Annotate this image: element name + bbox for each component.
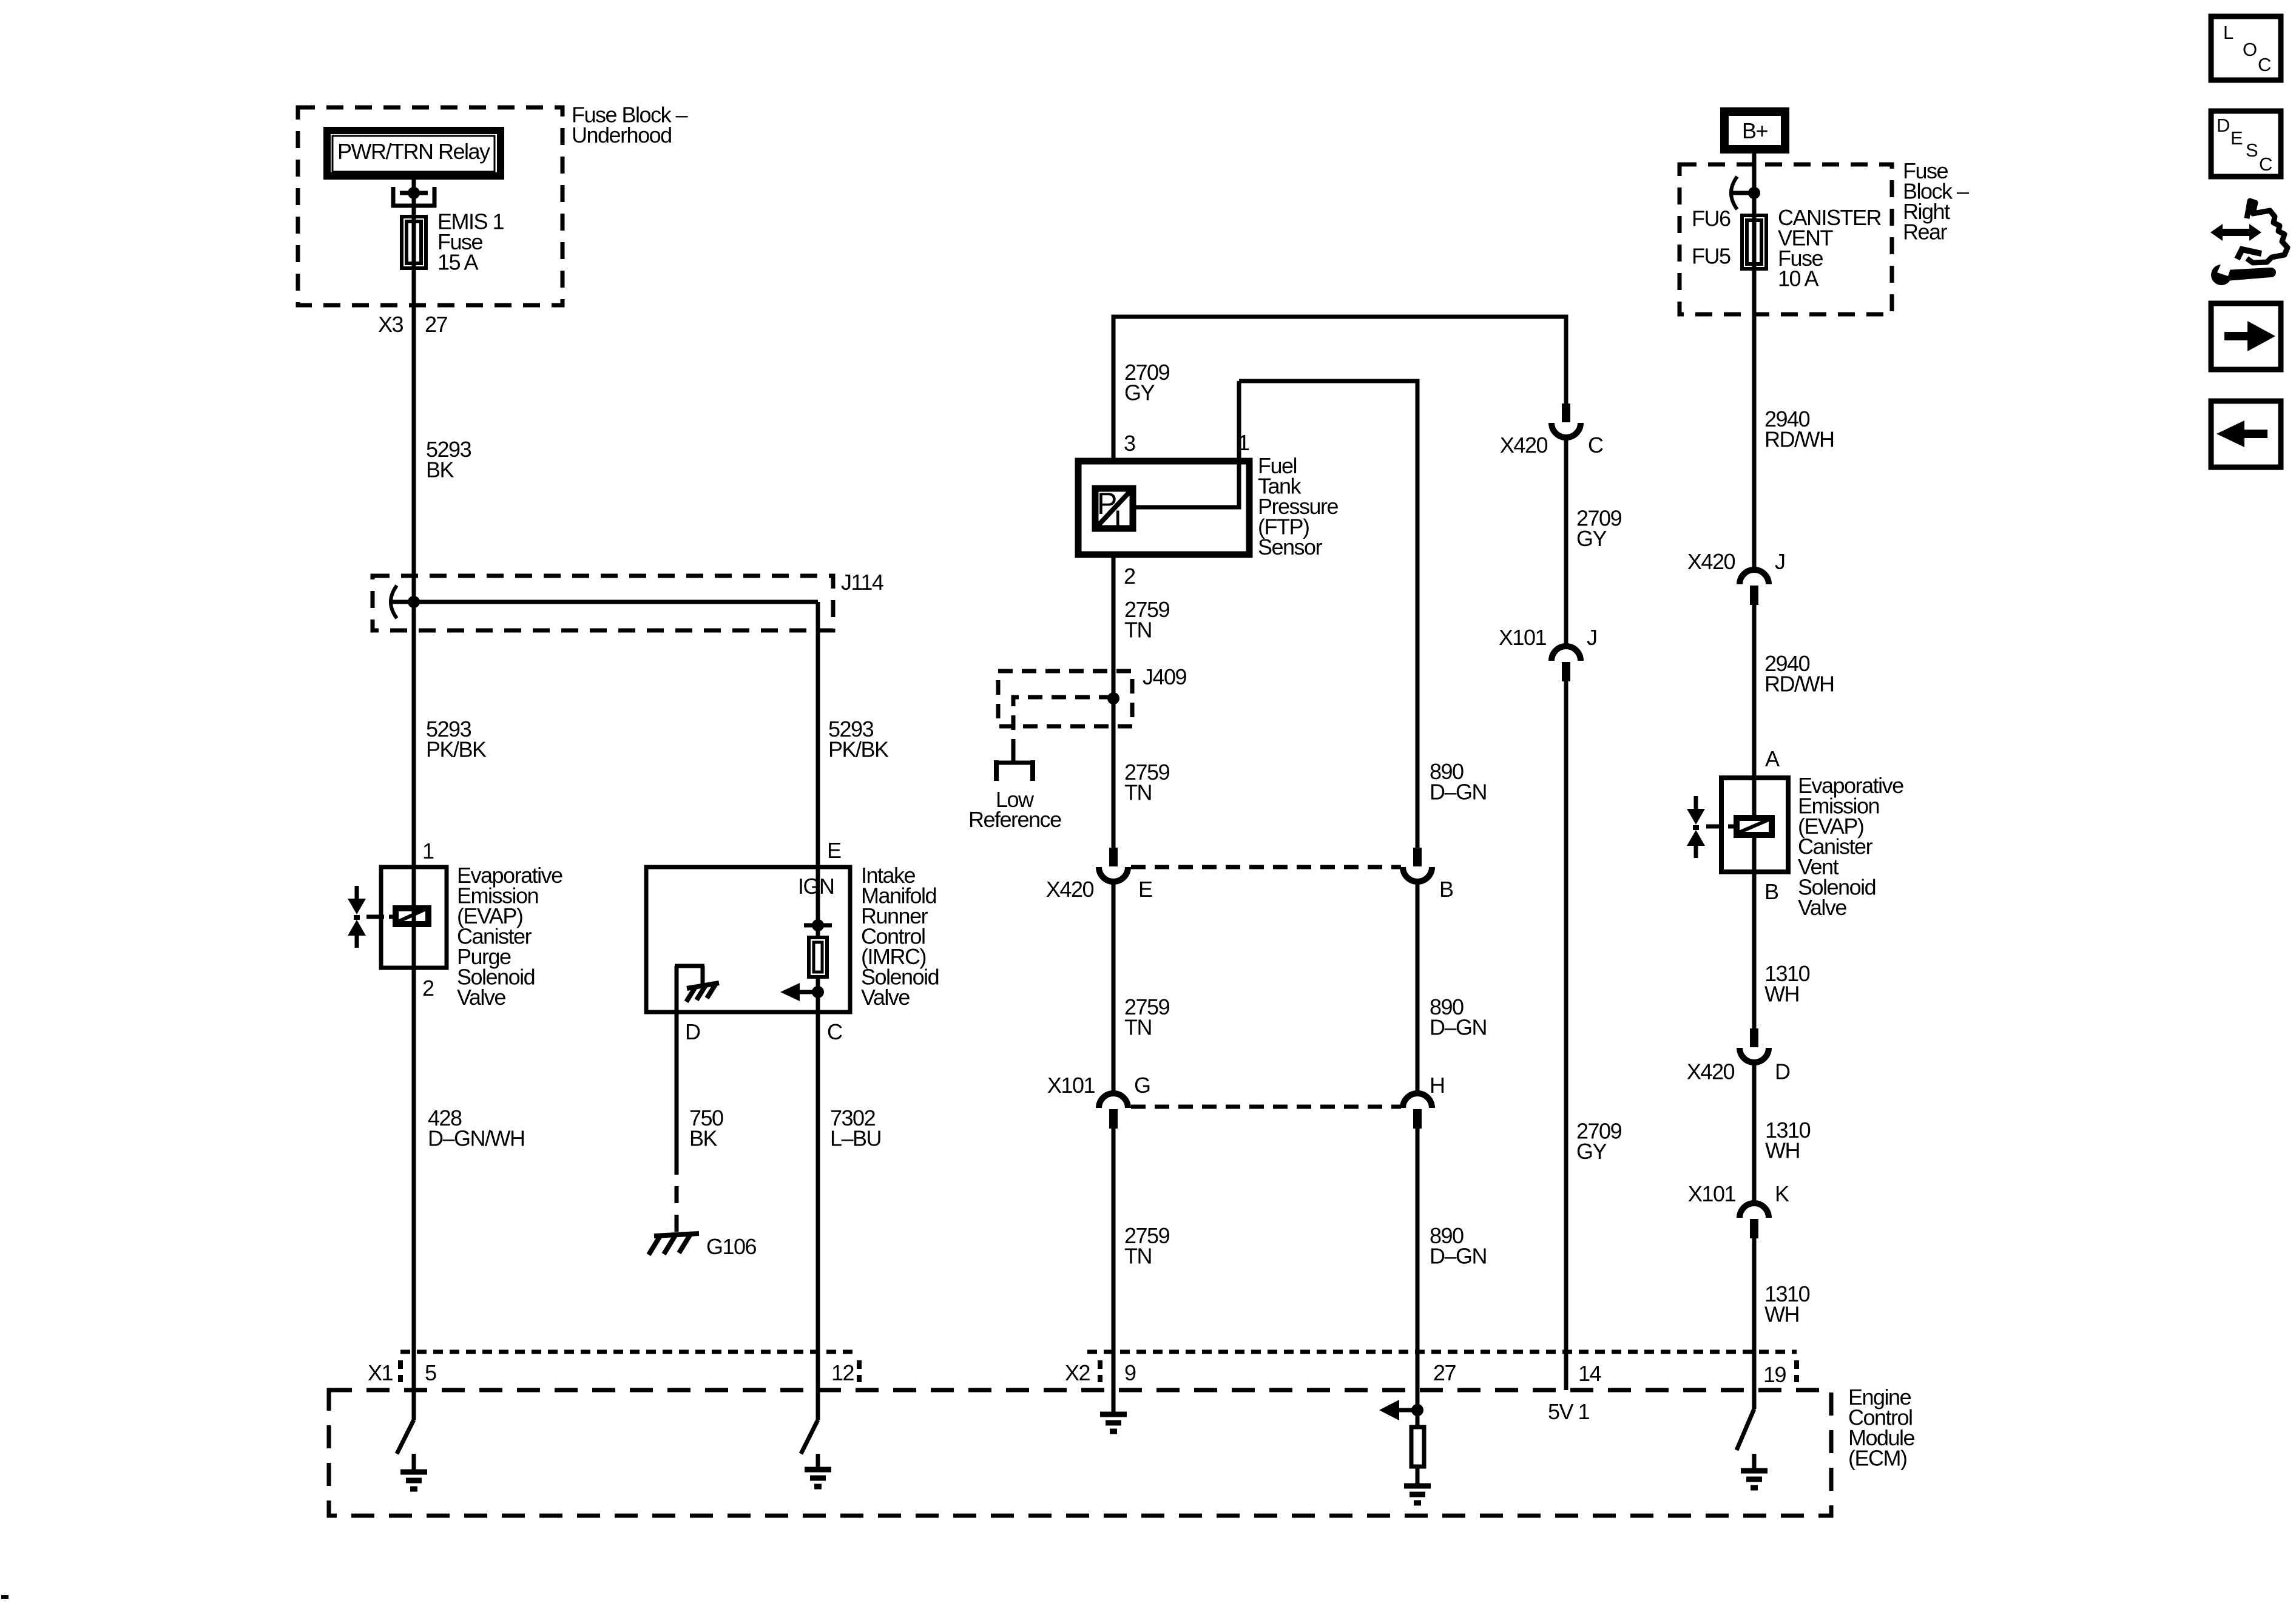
wire 2709 GY J to ECM pin 14 (1564, 681, 1568, 1390)
wire 1310 WH vent solenoid to X420 D (1752, 874, 1757, 1028)
IMRC arrow to valve (780, 983, 818, 1001)
svg-text:D–GN: D–GN (1430, 780, 1487, 805)
svg-text:14: 14 (1578, 1361, 1601, 1386)
label wire 5293 PK/BK right (828, 717, 889, 762)
svg-text:(ECM): (ECM) (1848, 1446, 1906, 1471)
fuse F EMIS1 15A symbol (402, 217, 426, 268)
connector X420 pin E symbol (1099, 848, 1128, 882)
svg-text:B: B (1764, 879, 1778, 904)
svg-text:X3: X3 (378, 312, 403, 337)
wire 428 D-GN/WH purge to ECM pin 5 (412, 968, 416, 1420)
EVAP vent valve symbol (1687, 796, 1705, 858)
svg-text:D–GN: D–GN (1430, 1244, 1487, 1269)
wire 2940 RD/WH J to vent solenoid (1752, 605, 1757, 777)
svg-text:J409: J409 (1143, 664, 1187, 689)
wire 7302 L-BU IMRC pin C to ECM pin 12 (816, 1012, 820, 1420)
svg-text:D: D (1775, 1059, 1790, 1084)
label wire 5293 BK (426, 437, 471, 482)
label X420 E (1046, 877, 1152, 902)
svg-text:C: C (2259, 154, 2272, 175)
wire 2759 TN G to ECM pin 9 (1112, 1129, 1116, 1413)
label X420 C (1500, 433, 1603, 457)
svg-text:X1: X1 (368, 1360, 393, 1385)
label X101 J (1499, 625, 1597, 650)
nav icon DESC box (2211, 111, 2281, 177)
svg-text:2: 2 (1124, 564, 1135, 589)
svg-text:X420: X420 (1687, 1059, 1735, 1084)
svg-text:27: 27 (425, 312, 448, 337)
wire 890 D-GN H to ECM pin 27 (1416, 1129, 1420, 1410)
svg-text:G106: G106 (706, 1234, 757, 1259)
fuse F CANISTER VENT 10A symbol (1742, 215, 1766, 269)
wire 2709 GY between C and J (1564, 437, 1568, 646)
fuse block right rear dashed box (1680, 164, 1892, 314)
svg-text:X101: X101 (1499, 625, 1547, 650)
connector X1 end tick left (398, 1360, 403, 1382)
svg-text:RD/WH: RD/WH (1764, 672, 1834, 697)
svg-text:X420: X420 (1687, 549, 1735, 574)
ground G106 chassis symbol (649, 1234, 699, 1255)
nav icon LOC box (2211, 16, 2281, 80)
svg-text:X420: X420 (1500, 433, 1548, 457)
nav icon back arrow box (2211, 401, 2281, 467)
label Evaporative Emission (EVAP) Canister Vent Solenoid Valve (1798, 773, 1903, 920)
svg-text:P: P (1097, 487, 1116, 521)
label Engine Control Module (ECM) (1848, 1385, 1915, 1471)
svg-text:WH: WH (1765, 1138, 1800, 1163)
wire B+ to fuse block (1752, 154, 1757, 214)
svg-text:1: 1 (422, 839, 434, 863)
splice J409 outer dashed box (998, 671, 1132, 726)
svg-text:L: L (2223, 22, 2234, 43)
connector X101 pin H symbol (1403, 1093, 1432, 1129)
fuse block underhood dashed box (298, 107, 562, 305)
IMRC internal ground hookup (675, 966, 704, 1012)
connector X2 dotted band (1087, 1350, 1797, 1354)
svg-text:9: 9 (1124, 1360, 1136, 1385)
svg-text:FU6: FU6 (1692, 206, 1730, 231)
IMRC resistor (809, 937, 827, 977)
relay K PWR/TRN inner box (333, 136, 495, 172)
EVAP canister vent solenoid valve box (1721, 778, 1788, 872)
ECM pin 5 switch (397, 1420, 414, 1454)
label wire 2709 GY top (1124, 360, 1170, 405)
junction dot J114 (408, 596, 420, 608)
svg-text:TN: TN (1124, 780, 1152, 805)
label wire 2759 TN mid (1124, 994, 1170, 1040)
svg-text:Underhood: Underhood (572, 123, 672, 147)
connector socket bracket under relay (391, 187, 436, 208)
svg-text:3: 3 (1124, 431, 1135, 456)
svg-text:D–GN/WH: D–GN/WH (428, 1126, 525, 1151)
label X420 J right (1687, 549, 1785, 574)
svg-text:10 A: 10 A (1778, 266, 1819, 291)
ECM pin 12 ground (805, 1454, 831, 1487)
svg-text:S: S (2246, 140, 2258, 161)
wire 890 D-GN pin1 over and down (1239, 381, 1417, 848)
connector X101 pin J symbol (1551, 646, 1581, 681)
wire through EVAP purge solenoid (412, 867, 416, 968)
wire 1310 WH K to ECM pin 19 (1752, 1238, 1757, 1409)
svg-text:A: A (1765, 746, 1780, 771)
svg-text:B: B (1439, 877, 1453, 902)
connector X101 pin K symbol (1740, 1203, 1769, 1238)
label CANISTER VENT Fuse 10 A (1778, 205, 1882, 291)
svg-text:E: E (1138, 877, 1152, 902)
label wire 5293 PK/BK left (426, 717, 487, 762)
connector X101 pin G symbol (1099, 1093, 1128, 1129)
svg-text:TN: TN (1124, 1015, 1152, 1040)
label wire 750 BK (689, 1106, 723, 1151)
svg-text:U: U (1114, 504, 1135, 538)
svg-text:2: 2 (422, 976, 434, 1001)
label wire 2759 TN upper (1124, 597, 1170, 643)
label wire 428 D-GN/WH (428, 1106, 525, 1151)
wire 2940 RD/WH fuse to X420 J (1752, 214, 1757, 570)
connector X420 pin J symbol (1740, 570, 1769, 605)
svg-text:D: D (2217, 115, 2229, 136)
wire 2759 TN FTP pin 2 down (1112, 555, 1116, 848)
wire inside vent solenoid (1752, 778, 1757, 874)
junction dot J409 (1107, 692, 1119, 704)
label wire 890 D-GN upper (1430, 759, 1487, 805)
connector X420 pin D symbol (1740, 1028, 1769, 1062)
svg-text:12: 12 (831, 1360, 854, 1385)
label Fuse Block - Right Rear (1903, 158, 1969, 245)
label wire 1310 WH lower (1764, 1281, 1810, 1327)
ECM dashed box (329, 1390, 1831, 1516)
svg-text:5: 5 (425, 1360, 436, 1385)
splice curl symbol right fuse block (1731, 177, 1737, 209)
nav icon next arrow box (2211, 303, 2281, 370)
svg-text:X101: X101 (1047, 1073, 1095, 1098)
label Evaporative Emission (EVAP) Canister Purge Solenoid Valve (457, 863, 562, 1010)
svg-text:X2: X2 (1065, 1360, 1090, 1385)
svg-text:D: D (685, 1019, 700, 1044)
svg-text:WH: WH (1764, 982, 1799, 1007)
battery B+ box (1724, 112, 1785, 149)
dashed harness line X420 E to B (1131, 865, 1401, 869)
svg-text:J114: J114 (841, 570, 883, 595)
svg-text:PWR/TRN Relay: PWR/TRN Relay (337, 139, 490, 164)
junction dot relay pin (408, 187, 420, 199)
svg-text:C: C (827, 1019, 842, 1044)
svg-text:RD/WH: RD/WH (1764, 427, 1834, 452)
svg-text:Sensor: Sensor (1258, 535, 1323, 559)
connector X1 end tick right (857, 1360, 862, 1382)
svg-text:B+: B+ (1742, 118, 1768, 143)
nav icon hand with wrench (2210, 201, 2288, 285)
wire IMRC resistor to pin C (816, 977, 820, 1012)
splice J114 dashed box (373, 576, 833, 630)
connector X2 end tick left (1098, 1360, 1102, 1382)
svg-text:Valve: Valve (861, 985, 910, 1010)
svg-text:Reference: Reference (968, 807, 1061, 832)
label X101 G (1047, 1073, 1150, 1098)
IMRC resistor top bar (804, 923, 832, 928)
IMRC internal chassis ground symbol (686, 983, 719, 1002)
ECM pin 27 arrow to 5V (1379, 1400, 1417, 1420)
wire 750 BK dashed part (675, 1158, 679, 1234)
page corner mark (1, 1595, 8, 1599)
connector X420 pin C symbol (1551, 403, 1581, 437)
svg-text:L–BU: L–BU (830, 1126, 881, 1151)
label Fuse Block - Underhood (572, 103, 688, 148)
svg-text:E: E (2230, 127, 2243, 149)
ECM pin 12 switch (801, 1420, 818, 1454)
label X420 D right (1687, 1059, 1790, 1084)
label wire 2940 RD/WH lower (1764, 651, 1834, 697)
wire from relay to fuse (412, 180, 416, 215)
splice J409 inner dashed branch (1013, 697, 1113, 755)
low reference terminal bracket (994, 754, 1035, 781)
splice curl symbol J114 (391, 586, 397, 618)
splice tick right fuse block (1732, 191, 1754, 195)
svg-text:BK: BK (689, 1126, 718, 1151)
wire J114 branch horizontal (414, 600, 818, 604)
label wire 2709 GY lower (1576, 1119, 1622, 1164)
svg-text:PK/BK: PK/BK (426, 737, 487, 762)
svg-text:PK/BK: PK/BK (828, 737, 889, 762)
svg-text:Valve: Valve (1798, 895, 1846, 920)
label wire 2759 TN lower (1124, 1223, 1170, 1269)
ECM pin 19 ground (1741, 1454, 1768, 1488)
relay K PWR/TRN outer box (327, 130, 501, 176)
EVAP canister purge solenoid valve box (381, 867, 447, 968)
label wire 1310 WH upper (1764, 961, 1810, 1007)
svg-text:J: J (1587, 625, 1597, 650)
svg-text:E: E (827, 838, 841, 863)
label Fuel Tank Pressure (FTP) Sensor (1258, 453, 1339, 559)
label wire 2940 RD/WH upper (1764, 407, 1834, 452)
label EMIS 1 Fuse 15 A (437, 209, 504, 275)
label Intake Manifold Runner Control (IMRC) Solenoid Valve (861, 863, 939, 1010)
svg-text:C: C (2258, 54, 2271, 75)
EVAP purge solenoid coil (366, 908, 428, 924)
label wire 2759 TN second (1124, 760, 1170, 805)
IMRC solenoid valve box (646, 867, 850, 1012)
label wire 890 D-GN mid (1430, 994, 1487, 1040)
ECM pin 9 ground (1100, 1414, 1127, 1431)
svg-text:TN: TN (1124, 618, 1152, 643)
svg-text:H: H (1430, 1073, 1445, 1098)
label Low Reference (968, 787, 1061, 832)
svg-text:FU5: FU5 (1692, 244, 1730, 269)
wire 1310 WH D to X101 K (1752, 1062, 1757, 1203)
label wire 890 D-GN lower (1430, 1223, 1487, 1269)
svg-text:27: 27 (1433, 1360, 1456, 1385)
svg-text:GY: GY (1576, 1139, 1607, 1164)
svg-text:X101: X101 (1688, 1181, 1736, 1206)
label wire 7302 L-BU (830, 1106, 881, 1151)
ECM pin 27 pullup resistor (1411, 1410, 1424, 1486)
wire 5293 PK/BK right branch down to IMRC pin E (816, 602, 820, 867)
junction dot ECM pin 27 (1411, 1404, 1423, 1416)
svg-text:15 A: 15 A (437, 250, 479, 275)
svg-text:19: 19 (1763, 1362, 1786, 1387)
svg-text:G: G (1134, 1073, 1150, 1098)
connector X1 dotted band (400, 1350, 857, 1354)
svg-text:GY: GY (1124, 380, 1155, 405)
FTP sensor P/U transducer square (1095, 487, 1135, 538)
svg-text:Rear: Rear (1903, 220, 1948, 245)
wire 2709 GY FTP pin 3 up and over (1113, 317, 1566, 461)
wire 5293 BK from fuse to J114 (412, 215, 416, 867)
FTP sensor box (1078, 461, 1249, 555)
ECM pin 5 ground (400, 1454, 427, 1489)
ECM pin 27 ground (1404, 1486, 1431, 1503)
EVAP purge valve symbol (348, 886, 366, 948)
wire 2759 TN E to G (1112, 882, 1116, 1093)
svg-text:BK: BK (426, 457, 454, 482)
label X101 K right (1688, 1181, 1789, 1206)
ECM pin 19 switch (1737, 1409, 1754, 1450)
dashed harness line X101 G to H (1131, 1105, 1401, 1109)
svg-text:D–GN: D–GN (1430, 1015, 1487, 1040)
svg-text:1: 1 (1238, 430, 1249, 455)
junction dot IMRC arrow (812, 986, 824, 998)
junction dot right fuse block (1748, 187, 1760, 199)
svg-text:TN: TN (1124, 1244, 1152, 1269)
label wire 1310 WH mid (1765, 1118, 1811, 1163)
wire 890 D-GN B to H (1416, 882, 1420, 1093)
connector X2 end tick right (1794, 1360, 1799, 1382)
splice tick J114 (392, 600, 414, 604)
EVAP vent solenoid coil (1706, 818, 1772, 835)
label wire 2709 GY mid (1576, 506, 1622, 552)
svg-text:X420: X420 (1046, 877, 1094, 902)
svg-text:C: C (1588, 433, 1603, 457)
junction dot IMRC resistor top (812, 919, 824, 931)
wire IMRC pin E inside box (816, 867, 820, 937)
connector X420 pin B symbol (1403, 848, 1432, 882)
svg-text:Valve: Valve (457, 985, 505, 1010)
wire 750 BK solid part (675, 1012, 679, 1158)
wire FTP U to pin 1 (1136, 381, 1239, 507)
svg-text:GY: GY (1576, 526, 1607, 551)
svg-text:J: J (1775, 549, 1785, 574)
svg-text:K: K (1775, 1181, 1789, 1206)
svg-text:WH: WH (1764, 1302, 1799, 1327)
svg-text:5V 1: 5V 1 (1548, 1399, 1590, 1424)
svg-text:O: O (2243, 39, 2257, 60)
